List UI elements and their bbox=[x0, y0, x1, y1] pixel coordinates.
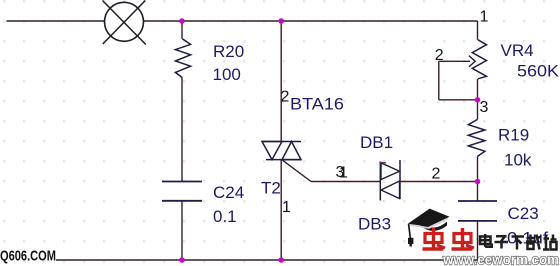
svg-text:0.1: 0.1 bbox=[213, 207, 237, 226]
wire R20 branch top bbox=[181, 21, 183, 39]
watermark graduation cap highlight bbox=[410, 218, 448, 228]
wire VR4 wiper horizontal bbox=[439, 60, 470, 62]
wire triac bottom to bottom rail bbox=[280, 160, 282, 260]
svg-text:T2: T2 bbox=[261, 179, 281, 198]
lamp X line 1 bbox=[103, 1, 146, 45]
svg-text:C24: C24 bbox=[213, 183, 244, 202]
svg-text:C23: C23 bbox=[508, 204, 539, 223]
svg-text:2: 2 bbox=[432, 166, 441, 183]
svg-text:2: 2 bbox=[435, 47, 444, 64]
watermark char xia bbox=[512, 237, 525, 250]
svg-text:100: 100 bbox=[213, 65, 241, 84]
junction node top-mid bbox=[278, 18, 284, 24]
watermark red char chong 1 bbox=[423, 228, 446, 249]
wire triac gate diagonal bbox=[283, 160, 312, 181]
diac DB1 left bar bbox=[379, 162, 381, 201]
svg-text:3: 3 bbox=[480, 99, 489, 116]
capacitor C23 plate top bbox=[458, 200, 497, 202]
triac T2 bottom bar bbox=[266, 159, 301, 161]
wire VR4 pin1 drop bbox=[477, 21, 479, 40]
watermark graduation cap board bbox=[408, 209, 450, 227]
svg-text:2: 2 bbox=[281, 89, 290, 106]
triac T2 down triangle bbox=[262, 142, 282, 160]
watermark char dian bbox=[480, 234, 492, 247]
wire C23 bottom to bottom rail bbox=[477, 221, 479, 260]
svg-text:R19: R19 bbox=[498, 126, 529, 145]
triac T2 up triangle bbox=[282, 142, 301, 160]
wire triac top branch bbox=[280, 21, 282, 142]
svg-text:VR4: VR4 bbox=[501, 41, 534, 60]
watermark cap tassel knob bbox=[408, 238, 413, 244]
capacitor C24 plate bottom bbox=[162, 200, 202, 202]
wire top horizontal left of lamp bbox=[7, 20, 106, 22]
wire VR4 pin2 to pin3 junction bbox=[439, 99, 478, 101]
wire VR4 pin2 down bbox=[438, 61, 440, 100]
svg-text:1: 1 bbox=[339, 165, 348, 182]
watermark graduation cap skullcap bbox=[421, 222, 448, 231]
wire R20 to C24 bbox=[181, 78, 183, 182]
triac T2 top bar bbox=[262, 141, 301, 143]
diac DB1 right bar bbox=[399, 160, 401, 199]
junction node bottom-left bbox=[179, 257, 185, 263]
svg-text:R20: R20 bbox=[213, 42, 244, 61]
svg-text:1: 1 bbox=[282, 199, 291, 216]
svg-text:www.eeworm.com: www.eeworm.com bbox=[442, 252, 559, 266]
junction node bottom-mid bbox=[278, 257, 284, 263]
lamp circle bbox=[105, 2, 144, 41]
watermark red char chong 2 bbox=[452, 228, 475, 249]
svg-text:DB1: DB1 bbox=[360, 133, 393, 152]
svg-text:560K: 560K bbox=[517, 62, 560, 81]
svg-text:10k: 10k bbox=[504, 151, 532, 170]
diac lower triangle bbox=[381, 181, 400, 199]
junction node R19-C23-diac bbox=[475, 179, 481, 185]
diac upper triangle bbox=[381, 163, 400, 180]
resistor R19 zigzag bbox=[468, 119, 485, 156]
lamp X line 2 bbox=[103, 1, 146, 45]
resistor R20 zigzag bbox=[175, 39, 190, 78]
wire gate to diac bbox=[311, 181, 380, 183]
watermark char zai bbox=[526, 235, 541, 250]
wire R19 bottom to C23 top bbox=[477, 156, 479, 201]
svg-text:1: 1 bbox=[480, 9, 489, 26]
svg-text:Q606.COM: Q606.COM bbox=[0, 248, 56, 265]
wire top horizontal right of lamp bbox=[144, 20, 478, 22]
wire bottom rail bbox=[56, 259, 478, 261]
watermark cap tassel tip bbox=[410, 244, 412, 247]
VR4 wiper arrow bbox=[469, 56, 475, 67]
watermark char zi bbox=[495, 236, 509, 248]
watermark cap tassel bbox=[409, 224, 411, 238]
capacitor C24 plate top bbox=[162, 181, 202, 183]
junction node VR4 pin3 bbox=[475, 97, 481, 103]
diac red tick bbox=[380, 161, 386, 164]
wire diac to junction bbox=[400, 181, 478, 183]
watermark char zhan bbox=[543, 235, 557, 250]
junction node top-left bbox=[179, 18, 185, 24]
capacitor C23 plate bottom bbox=[458, 220, 497, 222]
svg-text:BTA16: BTA16 bbox=[290, 95, 344, 114]
wire C24 to bottom bbox=[181, 201, 183, 260]
wire VR4 pin3 through junction to R19 bbox=[477, 79, 479, 120]
potentiometer VR4 zigzag bbox=[472, 40, 486, 79]
svg-text:DB3: DB3 bbox=[358, 215, 391, 234]
